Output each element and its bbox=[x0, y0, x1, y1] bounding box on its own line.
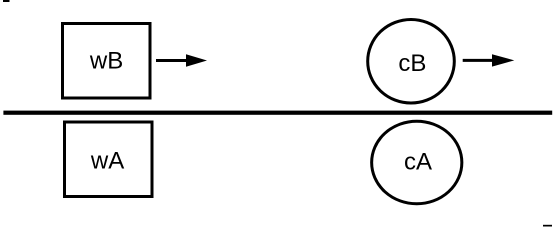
svg-text:cB: cB bbox=[398, 50, 426, 77]
svg-text:wB: wB bbox=[89, 48, 123, 75]
svg-text:cA: cA bbox=[404, 148, 432, 175]
svg-text:wA: wA bbox=[90, 148, 124, 175]
